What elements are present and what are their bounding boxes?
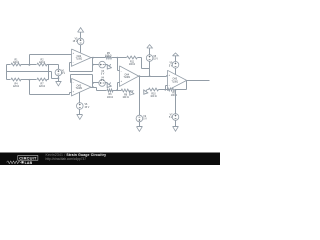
svg-text:5 V: 5 V bbox=[169, 117, 173, 119]
svg-text:15 V: 15 V bbox=[73, 41, 78, 43]
svg-text:100 Ω: 100 Ω bbox=[123, 97, 129, 99]
svg-text:OA5: OA5 bbox=[172, 78, 177, 81]
svg-text:120 Ω: 120 Ω bbox=[39, 62, 45, 64]
svg-text:0 V: 0 V bbox=[101, 74, 105, 76]
svg-text:5 V: 5 V bbox=[62, 73, 66, 75]
svg-text:120 Ω: 120 Ω bbox=[39, 86, 45, 88]
svg-text:15 V: 15 V bbox=[85, 107, 90, 109]
svg-text:120 Ω: 120 Ω bbox=[13, 62, 19, 64]
svg-text:OA3: OA3 bbox=[77, 84, 82, 87]
svg-text:OA4: OA4 bbox=[124, 73, 129, 76]
svg-text:TL081: TL081 bbox=[172, 81, 179, 83]
svg-text:100 Ω: 100 Ω bbox=[171, 95, 177, 97]
svg-text:100 Ω: 100 Ω bbox=[105, 55, 111, 57]
svg-text:100 Ω: 100 Ω bbox=[129, 64, 135, 66]
svg-text:5 V: 5 V bbox=[169, 65, 173, 67]
svg-text:0 V: 0 V bbox=[101, 80, 105, 82]
svg-text:TL081: TL081 bbox=[76, 88, 83, 90]
svg-text:TL081: TL081 bbox=[76, 59, 83, 61]
svg-text:100 Ω: 100 Ω bbox=[150, 96, 156, 98]
svg-text:100 Ω: 100 Ω bbox=[107, 97, 113, 99]
svg-text:15 V: 15 V bbox=[153, 59, 158, 61]
svg-text:5 V: 5 V bbox=[143, 119, 147, 121]
svg-text:120 Ω: 120 Ω bbox=[13, 86, 19, 88]
svg-text:http://circuitlab.com/c4pp737: http://circuitlab.com/c4pp737 bbox=[46, 157, 87, 161]
svg-text:OA2: OA2 bbox=[77, 55, 82, 58]
svg-text:TL081: TL081 bbox=[124, 77, 131, 79]
svg-text:LAB: LAB bbox=[25, 161, 33, 165]
